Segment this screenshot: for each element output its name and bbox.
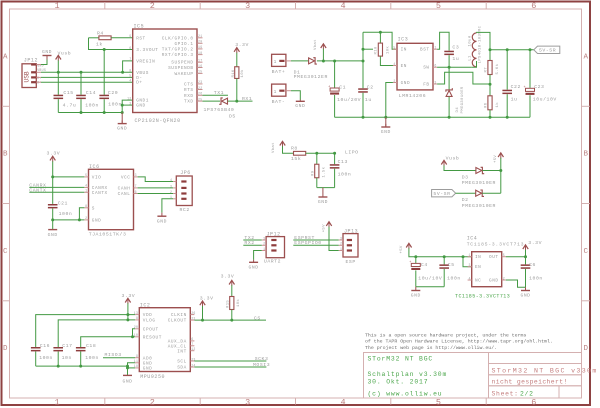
- svg-text:C17: C17: [62, 343, 72, 349]
- net flag 5V-SR (output): [534, 46, 560, 53]
- svg-text:MPU9250: MPU9250: [140, 374, 165, 380]
- svg-text:GND: GND: [157, 218, 167, 224]
- capacitor C3 1u: [444, 51, 454, 53]
- svg-text:+5V: +5V: [400, 245, 404, 253]
- wire RX1 net: [228, 100, 253, 102]
- svg-text:D+: D+: [136, 81, 142, 86]
- svg-text:C18: C18: [86, 343, 96, 349]
- junction R10 top: [379, 31, 382, 34]
- svg-text:Vbat: Vbat: [313, 39, 318, 50]
- svg-text:PMEG3012ER: PMEG3012ER: [294, 74, 328, 80]
- svg-text:PMEG3010ER: PMEG3010ER: [462, 203, 496, 209]
- svg-text:1k: 1k: [96, 41, 103, 47]
- svg-text:+: +: [409, 261, 411, 265]
- capacitor C15: [57, 72, 59, 95]
- ground GND (UART2): [253, 260, 255, 262]
- svg-text:D2: D2: [462, 197, 469, 203]
- svg-text:5.6k: 5.6k: [495, 63, 500, 74]
- svg-text:D: D: [584, 345, 589, 353]
- svg-text:C23: C23: [534, 84, 544, 90]
- svg-text:of the TAPR Open Hardware Lice: of the TAPR Open Hardware License, http:…: [365, 339, 553, 345]
- svg-text:1: 1: [340, 247, 342, 251]
- svg-text:The project web page is http:/: The project web page is http://www.olliw…: [365, 345, 497, 351]
- svg-text:GND: GND: [489, 279, 499, 284]
- svg-text:10k: 10k: [240, 69, 245, 77]
- svg-text:10n: 10n: [62, 355, 72, 361]
- svg-text:EN: EN: [401, 64, 407, 69]
- svg-text:2: 2: [170, 190, 172, 194]
- wire D1 to input rail: [317, 60, 363, 62]
- junction RESOUT/CPOUT: [131, 335, 134, 338]
- svg-text:STorM32 NT BGC v330m: STorM32 NT BGC v330m: [492, 367, 598, 374]
- svg-text:6: 6: [531, 398, 536, 408]
- svg-text:+: +: [328, 86, 330, 90]
- junction Vbat: [322, 60, 325, 63]
- svg-text:GND: GND: [295, 103, 305, 109]
- svg-text:GND: GND: [318, 199, 328, 205]
- junction VREGIN/VBUS: [121, 71, 124, 74]
- svg-text:BST: BST: [420, 48, 430, 53]
- svg-text:10u/10V: 10u/10V: [418, 275, 442, 281]
- wire IN tap to vertical: [363, 48, 373, 50]
- wire GND pin IC3: [386, 83, 393, 118]
- wire FB network: [437, 72, 490, 84]
- wire VDD row: [36, 315, 136, 347]
- wire 5V-SR to D2: [456, 192, 476, 194]
- svg-text:D: D: [3, 345, 8, 353]
- junction SW/C3/D4: [448, 66, 451, 69]
- junction rail GND pins: [121, 111, 124, 114]
- wire input rail top: [363, 32, 397, 49]
- wire R10 to EN: [380, 56, 397, 65]
- svg-text:3.3VOUT: 3.3VOUT: [136, 48, 158, 53]
- svg-text:ESP: ESP: [346, 259, 356, 265]
- svg-text:GPIO.1: GPIO.1: [174, 42, 193, 47]
- svg-text:A: A: [584, 53, 589, 61]
- resistor R16: [236, 53, 238, 67]
- capacitor C22 1u: [506, 50, 508, 90]
- svg-text:3.3V: 3.3V: [47, 150, 61, 156]
- wire Vusb stem: [57, 61, 59, 73]
- svg-text:TX1: TX1: [214, 90, 224, 96]
- ground GND (divider): [322, 188, 324, 197]
- svg-text:GND: GND: [143, 367, 153, 372]
- svg-text:+: +: [524, 86, 526, 90]
- svg-text:IN: IN: [401, 48, 407, 53]
- svg-text:B: B: [584, 151, 589, 159]
- inductor L1 LPS4018-103MRC: [472, 33, 476, 67]
- svg-text:C: C: [584, 248, 589, 256]
- wire MISO3 net: [103, 357, 135, 359]
- wire LIPO net: [306, 152, 335, 154]
- svg-text:3.3V: 3.3V: [200, 295, 214, 301]
- svg-text:5V-SR: 5V-SR: [539, 48, 556, 54]
- svg-text:GND: GND: [401, 81, 411, 86]
- svg-text:CLK/GPIO.0: CLK/GPIO.0: [162, 36, 194, 41]
- svg-text:C1: C1: [339, 85, 346, 91]
- svg-text:3.3V: 3.3V: [528, 240, 542, 246]
- capacitor C21 100n: [48, 204, 58, 206]
- svg-text:R9: R9: [311, 170, 315, 176]
- wire CANL: [138, 193, 174, 195]
- svg-text:VLOG: VLOG: [143, 319, 156, 324]
- junction mpu gnd C18: [79, 365, 82, 368]
- svg-text:ESPGPIO0: ESPGPIO0: [294, 240, 321, 246]
- svg-text:GND: GND: [411, 293, 421, 299]
- capacitor C14: [80, 72, 82, 95]
- wire CS net: [194, 319, 266, 321]
- svg-text:3: 3: [170, 184, 172, 188]
- svg-text:GND: GND: [520, 293, 530, 299]
- wire RESOUT row: [81, 337, 136, 347]
- svg-text:B: B: [3, 151, 8, 159]
- svg-text:TJA1051TK/3: TJA1051TK/3: [89, 232, 127, 238]
- junction gnd stem: [384, 116, 387, 119]
- svg-text:30. Okt. 2017: 30. Okt. 2017: [368, 379, 429, 386]
- junction 3.3VOUT/C20: [103, 48, 106, 51]
- junction gnd C2: [362, 116, 365, 119]
- svg-text:8: 8: [129, 69, 131, 73]
- svg-text:R6: R6: [484, 102, 488, 108]
- wire 5V-SR output rail: [490, 49, 534, 51]
- svg-text:OUT: OUT: [489, 255, 499, 260]
- svg-text:CANH: CANH: [118, 186, 131, 191]
- resistor R8 15k: [294, 151, 306, 155]
- svg-text:C: C: [3, 248, 8, 256]
- capacitor C1 10u/20V: [334, 61, 336, 88]
- svg-text:Vusb: Vusb: [446, 155, 460, 161]
- junction gnd R6: [489, 116, 492, 119]
- svg-text:C13: C13: [338, 159, 348, 165]
- junction gnd C22: [506, 116, 509, 119]
- svg-text:2/2: 2/2: [520, 390, 534, 397]
- svg-text:Vbat: Vbat: [271, 142, 276, 153]
- svg-text:TXT/GPIO.2: TXT/GPIO.2: [162, 47, 194, 52]
- svg-text:1u: 1u: [511, 96, 518, 102]
- wire VCC to JP6 pin4: [138, 177, 174, 182]
- svg-text:ESPRST: ESPRST: [294, 235, 315, 241]
- junction mpu gnd stem: [126, 365, 129, 368]
- svg-text:NC: NC: [475, 279, 481, 284]
- capacitor C6 100n: [525, 257, 527, 265]
- wire VIO row: [53, 176, 85, 178]
- wire CANTX net: [29, 191, 84, 193]
- svg-text:C16: C16: [40, 343, 50, 349]
- wire BST bootstrap: [437, 32, 449, 50]
- junction IN tap: [362, 48, 365, 51]
- wire VLOG row: [58, 320, 135, 347]
- svg-text:L1: L1: [468, 55, 472, 61]
- wire +5V stem: [500, 158, 502, 193]
- wire 3.3V to VIO/C21: [52, 161, 54, 204]
- wire GND pin IC4: [506, 280, 526, 287]
- svg-text:C14: C14: [86, 90, 96, 96]
- svg-text:1k: 1k: [495, 102, 500, 108]
- wire VBUS net: [41, 71, 133, 73]
- wire JP12 pin1 to ground: [254, 251, 262, 260]
- ground GND (MPU): [123, 374, 132, 376]
- svg-text:C20: C20: [108, 90, 118, 96]
- junction C21/GND row: [51, 218, 54, 221]
- svg-text:Sheet:: Sheet:: [492, 390, 519, 397]
- wire OUT to 3.3V: [506, 256, 526, 258]
- svg-text:6: 6: [531, 1, 536, 11]
- svg-text:R7: R7: [484, 67, 488, 73]
- svg-text:nicht gespeichert!: nicht gespeichert!: [492, 378, 568, 385]
- svg-text:IC3: IC3: [398, 37, 409, 43]
- wire GND row IC6: [53, 219, 85, 221]
- svg-text:C5: C5: [448, 262, 455, 268]
- svg-text:100n: 100n: [85, 355, 99, 361]
- svg-text:4: 4: [340, 1, 345, 11]
- svg-text:CLKOUT: CLKOUT: [168, 319, 187, 324]
- svg-text:CANRX: CANRX: [29, 182, 46, 188]
- resistor R7 5.6k: [489, 50, 491, 61]
- ground GND (JP6): [161, 213, 163, 216]
- svg-text:Schaltplan v3.30m: Schaltplan v3.30m: [368, 371, 448, 378]
- junction GND pins: [121, 104, 124, 107]
- svg-text:IC4: IC4: [467, 236, 478, 242]
- svg-text:TXD: TXD: [184, 100, 194, 105]
- svg-text:1u: 1u: [452, 56, 459, 62]
- capacitor C17 10n: [53, 347, 63, 349]
- junction S/GND: [78, 218, 81, 221]
- wire GND1/GND pins: [122, 100, 133, 112]
- svg-text:3: 3: [245, 1, 250, 11]
- svg-text:10uH: 10uH: [468, 35, 472, 46]
- svg-text:RXT/GPIO.3: RXT/GPIO.3: [162, 53, 194, 58]
- junction D1 wire: [362, 60, 365, 63]
- junction rail C14: [80, 111, 83, 114]
- svg-text:5: 5: [129, 74, 131, 78]
- svg-text:6: 6: [129, 46, 131, 50]
- svg-text:CS: CS: [254, 315, 261, 321]
- wire BAT- to ground: [291, 91, 300, 100]
- svg-text:SW: SW: [423, 66, 429, 71]
- junction VDD: [126, 313, 129, 316]
- svg-text:VCC: VCC: [121, 175, 131, 180]
- svg-text:1: 1: [54, 1, 59, 11]
- junction gnd D4: [448, 116, 451, 119]
- diode D3 PMEG3010ER: [476, 168, 482, 174]
- svg-text:MISO3: MISO3: [105, 352, 122, 358]
- wire D- net: [41, 76, 133, 78]
- svg-text:C3: C3: [452, 44, 459, 50]
- capacitor C18 100n: [76, 347, 86, 349]
- ground GND (USB caps): [121, 113, 123, 124]
- junction C13 top: [333, 152, 336, 155]
- resistor R10 10k: [379, 32, 381, 43]
- ground GND (CAN): [48, 229, 57, 231]
- svg-text:TC1185-3.3VCT713: TC1185-3.3VCT713: [467, 241, 525, 247]
- wire +5V to IN rail: [409, 248, 472, 256]
- svg-text:D5: D5: [229, 113, 236, 119]
- wire D+ net: [41, 81, 133, 83]
- svg-text:100n: 100n: [338, 172, 352, 178]
- svg-text:PMEG3010ER: PMEG3010ER: [461, 86, 465, 113]
- wire CANRX net: [29, 186, 84, 188]
- svg-text:10k: 10k: [385, 46, 390, 54]
- wire D2 to +5V: [482, 192, 501, 194]
- svg-text:GND: GND: [92, 218, 102, 223]
- svg-text:C6: C6: [529, 262, 536, 268]
- svg-text:2: 2: [150, 1, 155, 11]
- wire JP6 pin1 to ground: [162, 199, 173, 213]
- svg-text:100n: 100n: [108, 102, 122, 108]
- svg-text:CLKIN: CLKIN: [171, 313, 187, 318]
- wire L1 bottom to SW: [471, 61, 476, 67]
- svg-text:100n: 100n: [447, 275, 461, 281]
- junction FB/R7/R6: [489, 83, 492, 86]
- svg-text:VREGIN: VREGIN: [136, 59, 155, 64]
- wire VREGIN jog: [123, 61, 133, 72]
- svg-text:SUSPEND: SUSPEND: [171, 61, 193, 66]
- svg-text:1.5k: 1.5k: [321, 166, 326, 177]
- svg-text:100n: 100n: [529, 275, 543, 281]
- svg-text:R16: R16: [232, 69, 236, 77]
- capacitor C2 1u: [358, 88, 368, 90]
- svg-text:+5V: +5V: [322, 224, 326, 232]
- junction rail C23: [529, 48, 532, 51]
- connector BAT-: [272, 84, 286, 96]
- svg-text:SCL: SCL: [177, 360, 187, 365]
- junction VLOG: [126, 318, 129, 321]
- wire MOSI3 net: [194, 366, 266, 368]
- svg-text:R10: R10: [375, 46, 379, 54]
- svg-text:GND: GND: [249, 264, 259, 270]
- svg-text:GND: GND: [136, 104, 146, 109]
- junction mpu gnd C17: [57, 365, 60, 368]
- ground GND (LDO out): [525, 287, 527, 290]
- svg-text:1PS76SB40: 1PS76SB40: [204, 107, 235, 113]
- svg-text:R15: R15: [227, 300, 231, 308]
- capacitor C23 10u/10V: [529, 50, 531, 88]
- svg-text:LIPO: LIPO: [345, 150, 359, 156]
- svg-text:1: 1: [263, 247, 265, 251]
- svg-text:RXD: RXD: [184, 94, 194, 99]
- svg-text:GND: GND: [381, 129, 391, 135]
- wire C4/C5 ground rail: [416, 286, 444, 288]
- svg-text:CP2102N-QFN20: CP2102N-QFN20: [135, 118, 181, 124]
- svg-text:PMEG3010ER: PMEG3010ER: [462, 180, 496, 186]
- svg-text:1: 1: [54, 398, 59, 408]
- svg-text:GND: GND: [117, 125, 127, 131]
- svg-text:100n: 100n: [59, 211, 73, 217]
- svg-text:+5V: +5V: [494, 155, 498, 163]
- svg-text:2: 2: [340, 242, 342, 246]
- svg-text:3.3V: 3.3V: [221, 273, 235, 279]
- svg-text:RC2: RC2: [180, 207, 190, 213]
- svg-text:USB: USB: [24, 71, 31, 82]
- wire R4 to 3.3VOUT: [89, 38, 133, 50]
- svg-text:GND: GND: [37, 63, 44, 67]
- svg-text:JP12: JP12: [24, 57, 38, 63]
- capacitor C4 10u/10V: [415, 257, 417, 263]
- svg-text:2: 2: [263, 242, 265, 246]
- junction +5V: [499, 169, 502, 172]
- ground GND (BAT-): [299, 100, 301, 102]
- svg-text:R8: R8: [291, 145, 298, 151]
- svg-text:4: 4: [170, 178, 172, 182]
- junction R9 top: [315, 152, 318, 155]
- svg-text:4: 4: [129, 79, 131, 83]
- svg-text:12: 12: [127, 96, 131, 100]
- svg-text:C4: C4: [421, 262, 428, 268]
- svg-text:1: 1: [274, 89, 277, 95]
- svg-text:BAT+: BAT+: [272, 69, 286, 75]
- junction CS/3.3V: [201, 319, 204, 322]
- svg-text:GND: GND: [42, 49, 52, 55]
- svg-text:IN: IN: [475, 255, 481, 260]
- diode D5 1PS76SB40: [222, 98, 228, 104]
- svg-text:C21: C21: [58, 200, 68, 206]
- capacitor C13 100n: [334, 153, 336, 164]
- resistor R15 10k: [231, 285, 233, 296]
- svg-text:100n: 100n: [85, 102, 99, 108]
- junction rail C20: [103, 111, 106, 114]
- wire TX2 net: [243, 239, 261, 241]
- svg-text:5: 5: [436, 398, 441, 408]
- svg-text:LPS4018-103MRC: LPS4018-103MRC: [479, 25, 483, 63]
- wire CPOUT jog: [133, 329, 136, 337]
- svg-text:SCK3: SCK3: [255, 356, 269, 362]
- svg-text:CTS: CTS: [184, 82, 194, 87]
- wire TXD to D5: [203, 100, 221, 102]
- svg-text:2: 2: [150, 398, 155, 408]
- wire ESPGPIO0 net: [293, 244, 338, 246]
- svg-text:UART2: UART2: [264, 259, 281, 265]
- svg-text:RX2: RX2: [244, 240, 254, 246]
- diode D1 PMEG3012ER: [309, 58, 315, 64]
- svg-text:3: 3: [340, 236, 342, 240]
- wire CANH: [138, 187, 174, 189]
- svg-text:TX2: TX2: [244, 235, 254, 241]
- svg-text:FB: FB: [423, 83, 429, 88]
- svg-text:CPOUT: CPOUT: [143, 327, 159, 332]
- capacitor C16 100n: [31, 347, 41, 349]
- svg-text:TC1185-3.3VCT713: TC1185-3.3VCT713: [455, 294, 510, 300]
- svg-text:10u/20V: 10u/20V: [337, 97, 361, 103]
- svg-text:3: 3: [245, 398, 250, 408]
- wire decoupling ground rail: [58, 112, 122, 114]
- svg-text:SUSPENDB: SUSPENDB: [168, 66, 193, 71]
- svg-text:CANTX: CANTX: [92, 191, 108, 196]
- svg-text:RX1: RX1: [242, 96, 252, 102]
- wire L1 top to output: [477, 32, 491, 49]
- wire SW node: [437, 66, 471, 68]
- svg-text:15k: 15k: [291, 156, 301, 162]
- svg-text:1: 1: [274, 59, 277, 65]
- connector BAT+: [272, 54, 286, 66]
- svg-text:C2: C2: [367, 85, 374, 91]
- junction rail C22: [506, 48, 509, 51]
- svg-text:10k: 10k: [236, 299, 241, 307]
- wire 3.3V to CS: [202, 306, 204, 320]
- svg-text:5V-SR: 5V-SR: [433, 191, 450, 197]
- svg-text:10u/10V: 10u/10V: [533, 96, 557, 102]
- svg-text:CANTX: CANTX: [29, 187, 46, 193]
- wire SCK3 net: [194, 360, 266, 362]
- svg-text:4: 4: [340, 398, 345, 408]
- resistor R6 1k: [488, 96, 492, 110]
- pin stubs JP12: [36, 64, 41, 66]
- svg-text:SDA: SDA: [177, 366, 187, 371]
- wire divider ground: [317, 187, 335, 189]
- wire +5V to JP13 pin1: [329, 227, 339, 251]
- svg-text:D4: D4: [456, 107, 460, 113]
- svg-text:S: S: [92, 206, 95, 211]
- junction OUT/C6: [524, 255, 527, 258]
